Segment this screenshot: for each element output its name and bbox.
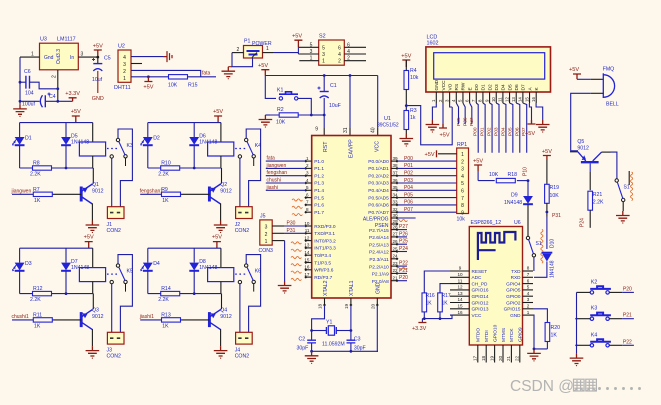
svg-text:D1: D1 (25, 136, 32, 142)
power +5V (474, 165, 482, 171)
connector J5 CON3 (260, 220, 272, 245)
svg-text:10K: 10K (550, 193, 560, 199)
svg-text:2: 2 (123, 69, 126, 75)
svg-text:T1/P3.5: T1/P3.5 (314, 260, 331, 266)
svg-text:INT0/P3.2: INT0/P3.2 (314, 238, 336, 244)
svg-text:3: 3 (306, 171, 309, 176)
mcu right pin stubs P0 (391, 156, 398, 214)
svg-text:P37: P37 (469, 117, 475, 126)
svg-text:3: 3 (265, 225, 268, 231)
svg-text:CON3: CON3 (259, 248, 274, 254)
svg-text:D2: D2 (153, 136, 160, 142)
resistor R18 10K (478, 180, 495, 182)
wire to RXD (534, 262, 547, 278)
svg-text:jiashi1: jiashi1 (139, 314, 154, 320)
capacitor C4 100uf (20, 100, 40, 102)
svg-text:7: 7 (527, 272, 530, 277)
ground (536, 120, 550, 133)
svg-text:P03: P03 (404, 178, 413, 184)
net label chushi1 (12, 319, 33, 321)
svg-text:P1.2: P1.2 (314, 173, 324, 179)
svg-text:R3: R3 (410, 108, 417, 114)
resistor R10 2.2K (148, 167, 222, 169)
wire (220, 248, 222, 267)
lcd LCD1602 (426, 47, 551, 92)
svg-text:10k: 10k (457, 217, 466, 223)
svg-text:EA/VPP: EA/VPP (349, 139, 355, 158)
svg-text:16: 16 (304, 265, 310, 270)
pin ALE (391, 217, 397, 219)
svg-text:ALE/PROG: ALE/PROG (363, 217, 389, 223)
svg-text:P30: P30 (287, 221, 296, 227)
+5V rail J1 (72, 116, 80, 123)
power +5V rail (261, 70, 269, 76)
svg-text:S2: S2 (319, 34, 326, 40)
ground (214, 346, 228, 359)
svg-text:P1.5: P1.5 (314, 195, 324, 201)
svg-text:D4: D4 (501, 84, 507, 90)
svg-text:U1: U1 (384, 116, 391, 122)
svg-text:C6: C6 (24, 69, 31, 75)
wire GND pin 20 (376, 305, 379, 351)
wire (91, 204, 93, 221)
svg-text:P1.0: P1.0 (314, 159, 324, 165)
svg-text:7: 7 (461, 196, 464, 202)
power +5V (402, 60, 410, 67)
svg-text:4: 4 (338, 52, 341, 58)
svg-text:+5V: +5V (212, 235, 222, 241)
wire (147, 145, 149, 168)
svg-text:D9: D9 (511, 193, 518, 199)
svg-text:P02: P02 (404, 171, 413, 177)
svg-text:8: 8 (527, 266, 530, 271)
svg-text:P00: P00 (473, 127, 479, 136)
svg-text:CON2: CON2 (107, 228, 122, 234)
net label fengshan1 (140, 193, 161, 195)
svg-text:P0.2/AD2: P0.2/AD2 (368, 173, 389, 179)
svg-text:RXD/P3.0: RXD/P3.0 (314, 224, 336, 230)
svg-text:30pF: 30pF (354, 346, 366, 352)
wire (517, 180, 528, 182)
svg-text:RXD: RXD (511, 275, 522, 280)
svg-text:GPIO5: GPIO5 (506, 288, 521, 293)
svg-text:P24: P24 (580, 218, 586, 227)
svg-text:P21: P21 (623, 313, 632, 319)
resistor R21 2.2K (588, 191, 593, 210)
svg-text:1K: 1K (426, 301, 433, 307)
svg-text:VCC: VCC (375, 141, 381, 152)
svg-text:P1.7: P1.7 (314, 210, 324, 216)
svg-text:XTAL1: XTAL1 (349, 280, 355, 296)
wire (20, 122, 93, 124)
svg-text:BELL: BELL (606, 102, 619, 108)
mcu bottom pins (324, 298, 326, 305)
wire (65, 248, 67, 262)
svg-text:C5: C5 (104, 56, 111, 62)
wire J5 to P3.1 (272, 232, 284, 234)
wire pin3 stub (131, 63, 142, 65)
resistor R14 2.2K (148, 293, 222, 295)
wire (19, 271, 21, 294)
svg-text:RS: RS (454, 84, 460, 91)
wire (92, 123, 94, 142)
svg-text:ESP8266_12: ESP8266_12 (471, 220, 502, 226)
svg-text:11: 11 (458, 278, 463, 283)
svg-text:R10: R10 (161, 161, 171, 167)
wire pin2 of U3 (57, 70, 59, 101)
svg-text:D3: D3 (494, 84, 500, 90)
svg-text:6: 6 (461, 189, 464, 195)
svg-text:P00: P00 (404, 156, 413, 162)
svg-text:16: 16 (457, 310, 463, 315)
svg-text:VCC: VCC (441, 80, 447, 91)
svg-text:23: 23 (393, 261, 399, 266)
svg-text:jiashi: jiashi (266, 185, 278, 191)
svg-text:P1.4: P1.4 (314, 188, 324, 194)
wire (239, 284, 241, 333)
svg-text:P06: P06 (404, 200, 413, 206)
svg-text:Q2: Q2 (220, 182, 227, 188)
svg-text:100uf: 100uf (22, 102, 36, 108)
antenna logo (478, 232, 516, 260)
svg-text:+5V: +5V (425, 152, 435, 158)
svg-text:Q4: Q4 (220, 308, 227, 314)
svg-text:T0/P3.4: T0/P3.4 (314, 253, 331, 259)
svg-text:P01: P01 (480, 127, 486, 136)
wire (118, 129, 132, 207)
wire ground rail (312, 350, 378, 352)
svg-text:3: 3 (461, 167, 464, 173)
wire (220, 282, 222, 294)
wire (220, 123, 222, 142)
crystal Y1 11.0592M (312, 330, 327, 332)
ground (400, 134, 414, 147)
svg-text:15: 15 (524, 97, 529, 102)
buzzer FMQ BELL (602, 73, 604, 98)
svg-text:R11: R11 (33, 313, 42, 319)
svg-text:11.0592M: 11.0592M (322, 342, 345, 348)
wire lcd pin1 to ground (432, 103, 436, 120)
ground (86, 221, 100, 234)
svg-text:P22: P22 (623, 339, 632, 345)
wire (92, 282, 94, 294)
svg-text:30: 30 (393, 213, 399, 218)
svg-text:C2: C2 (299, 337, 306, 343)
svg-text:37: 37 (393, 171, 399, 176)
svg-text:P2.7/A15: P2.7/A15 (369, 228, 389, 234)
wire (221, 168, 223, 184)
svg-text:8: 8 (461, 203, 464, 209)
svg-text:13: 13 (457, 291, 463, 296)
wire (622, 202, 624, 211)
wire (591, 92, 604, 94)
svg-text:R4: R4 (410, 68, 417, 74)
svg-text:24: 24 (393, 254, 399, 259)
svg-text:P04: P04 (500, 127, 506, 136)
svg-text:RP1: RP1 (457, 142, 467, 148)
svg-text:10K: 10K (276, 120, 286, 126)
svg-text:GPIO15: GPIO15 (504, 307, 521, 312)
svg-text:P06: P06 (514, 127, 520, 136)
dip switch S2 (319, 40, 345, 65)
svg-text:D10: D10 (550, 239, 556, 248)
svg-text:P1.3: P1.3 (314, 181, 324, 187)
svg-text:5: 5 (461, 181, 464, 187)
svg-text:+5V: +5V (401, 54, 411, 60)
resistor R9 1K (181, 193, 210, 195)
svg-text:D6: D6 (514, 84, 520, 90)
svg-text:9: 9 (315, 127, 318, 133)
esp bottom pins (473, 324, 524, 362)
resistor pack RP1 10k (457, 148, 469, 214)
svg-text:+5V: +5V (542, 149, 552, 155)
wires P0 to RP1 (397, 156, 457, 213)
svg-text:+3.3V: +3.3V (412, 326, 427, 332)
svg-text:R15: R15 (188, 83, 198, 89)
svg-text:1K: 1K (551, 333, 558, 339)
svg-text:D1: D1 (481, 84, 487, 90)
svg-text:K1: K1 (277, 88, 283, 94)
svg-text:2.2K: 2.2K (158, 297, 169, 303)
svg-text:P02: P02 (487, 127, 493, 136)
svg-text:MTDO: MTDO (476, 328, 482, 342)
svg-text:U2: U2 (118, 44, 125, 50)
diode D8 1N4148 (189, 263, 199, 271)
resistor R16 1K (422, 293, 427, 312)
svg-text:R21: R21 (593, 192, 603, 198)
svg-text:P01: P01 (404, 163, 413, 169)
wire (147, 271, 149, 294)
svg-text:R16: R16 (426, 293, 435, 299)
net label jiashi1 (140, 319, 161, 321)
wire (78, 56, 98, 58)
wire (193, 271, 195, 294)
svg-text:13: 13 (511, 97, 516, 102)
resistor R12 2.2K (20, 293, 94, 295)
svg-text:40: 40 (371, 127, 377, 133)
svg-text:VCC: VCC (472, 313, 483, 318)
svg-text:2.2K: 2.2K (158, 172, 169, 178)
svg-text:14: 14 (304, 250, 310, 255)
resistor R15 10K (169, 75, 188, 79)
wire (20, 56, 40, 58)
wire (298, 98, 311, 115)
svg-text:P20: P20 (623, 286, 632, 292)
connector J2 CON2 (236, 207, 253, 219)
svg-text:14: 14 (518, 97, 523, 102)
svg-text:1: 1 (265, 239, 268, 245)
svg-text:12: 12 (504, 97, 509, 102)
capacitor C2 30pF (307, 340, 316, 343)
wire J5 to P3.0 (272, 225, 284, 227)
svg-text:19: 19 (344, 303, 349, 309)
svg-text:CH_PD: CH_PD (472, 281, 489, 286)
wire J5 pin1 to ground (272, 240, 284, 242)
wire (220, 156, 222, 168)
wire VCC pin 40 (377, 76, 379, 129)
svg-text:U3: U3 (40, 37, 47, 43)
wire (19, 248, 21, 262)
svg-text:RST: RST (323, 141, 329, 152)
wire (118, 255, 132, 333)
svg-text:2: 2 (461, 159, 464, 165)
wire lcd pin16 to ground (536, 103, 543, 120)
svg-text:20: 20 (498, 355, 503, 361)
svg-text:P2.3/A11: P2.3/A11 (369, 257, 389, 263)
svg-text:11: 11 (498, 97, 503, 102)
net label jiangwen (12, 193, 33, 195)
wire (92, 248, 94, 267)
svg-text:CSDN @: CSDN @ (510, 378, 574, 395)
wire collector (589, 163, 591, 171)
svg-text:10K: 10K (168, 83, 178, 89)
svg-text:CON2: CON2 (107, 354, 122, 360)
svg-text:Gnd: Gnd (44, 55, 54, 61)
wire (19, 145, 21, 168)
svg-text:P0.0/AD0: P0.0/AD0 (368, 159, 389, 165)
svg-text:+5V: +5V (143, 85, 153, 91)
svg-text:2: 2 (527, 304, 530, 309)
svg-text:2: 2 (265, 232, 268, 238)
connector U2 DHT11 (118, 50, 131, 82)
svg-text:D5: D5 (507, 84, 513, 90)
switch S3 (615, 179, 618, 182)
svg-text:GPIO13: GPIO13 (472, 307, 489, 312)
svg-text:POWER: POWER (252, 41, 272, 47)
svg-text:4: 4 (461, 174, 464, 180)
svg-text:10: 10 (457, 272, 463, 277)
svg-text:89C51/52: 89C51/52 (377, 123, 399, 129)
svg-text:+5V: +5V (525, 131, 535, 137)
svg-text:MTDI: MTDI (484, 330, 490, 342)
svg-text:C1: C1 (330, 83, 337, 89)
svg-text:+5V: +5V (440, 133, 450, 139)
svg-text:chushi: chushi (267, 178, 281, 184)
svg-text:17: 17 (304, 272, 310, 277)
transistor Q1 9012 (81, 184, 92, 204)
wire (92, 294, 94, 310)
wire (193, 248, 195, 262)
resistor R11 1K (53, 319, 82, 321)
wire lcd pin15 backlight +5V (529, 103, 531, 124)
wire (65, 123, 67, 137)
svg-text:CON2: CON2 (235, 354, 250, 360)
svg-text:+5V: +5V (213, 109, 223, 115)
wire (147, 123, 149, 137)
svg-text:38: 38 (393, 163, 399, 168)
svg-text:P31: P31 (552, 213, 561, 219)
svg-text:R12: R12 (33, 286, 43, 292)
+5V rail J2 (214, 116, 222, 123)
svg-text:P26: P26 (399, 231, 408, 237)
svg-text:R7: R7 (33, 187, 40, 193)
relay K6 (208, 264, 262, 292)
svg-text:+5V: +5V (292, 34, 302, 40)
svg-text:13: 13 (304, 243, 310, 248)
svg-text:chushi1: chushi1 (12, 314, 29, 320)
svg-text:D4: D4 (153, 261, 160, 267)
svg-text:P2.4/A12: P2.4/A12 (369, 250, 389, 256)
svg-text:1: 1 (306, 156, 309, 161)
wire lcd pin2 +5V (442, 103, 444, 128)
svg-text:CON2: CON2 (235, 228, 250, 234)
svg-text:P0.7/AD7: P0.7/AD7 (368, 210, 389, 216)
LED D2 (140, 137, 153, 146)
svg-text:fata: fata (267, 156, 276, 162)
svg-text:E: E (467, 87, 473, 90)
wire (405, 130, 407, 135)
svg-text:2: 2 (306, 163, 309, 168)
ground sideways (163, 51, 172, 62)
wire (65, 145, 67, 168)
svg-text:9: 9 (461, 210, 464, 216)
svg-text:4: 4 (527, 291, 530, 296)
svg-text:9012: 9012 (92, 314, 104, 320)
wire (311, 114, 324, 116)
connector P1 POWER (244, 46, 263, 59)
wire rail (265, 75, 377, 77)
diode D7 1N4148 (61, 263, 71, 271)
svg-text:5: 5 (322, 45, 325, 51)
svg-text:jiangwen: jiangwen (11, 189, 32, 195)
svg-text:+5V: +5V (258, 63, 268, 69)
svg-text:P1.1: P1.1 (314, 166, 324, 172)
wire (65, 271, 67, 294)
svg-text:P0.5/AD5: P0.5/AD5 (368, 195, 389, 201)
power +5V (543, 156, 551, 161)
svg-text:GPIO12: GPIO12 (472, 300, 489, 305)
wire (147, 248, 149, 262)
wire (193, 123, 195, 137)
svg-text:R20: R20 (551, 325, 561, 331)
svg-text:Out3.3: Out3.3 (56, 49, 62, 64)
wire button rail (576, 292, 578, 353)
power +5V (94, 50, 102, 57)
svg-text:P2.2/A10: P2.2/A10 (369, 264, 389, 270)
svg-text:12: 12 (457, 285, 463, 290)
svg-text:9012: 9012 (220, 314, 232, 320)
svg-text:1: 1 (266, 46, 269, 52)
svg-text:jiangwen: jiangwen (266, 163, 287, 169)
svg-text:16: 16 (531, 97, 536, 102)
svg-text:39: 39 (393, 156, 399, 161)
wire (20, 247, 93, 249)
LED D4 (140, 263, 153, 272)
wire to TXD (533, 257, 535, 271)
capacitor C1 10uF (323, 76, 325, 92)
ground (570, 354, 584, 367)
transistor Q3 9012 (81, 310, 92, 330)
wire (265, 76, 276, 99)
power +5V (294, 40, 302, 47)
wire RP1 pin1 +5V (438, 153, 457, 155)
svg-text:ADC: ADC (472, 275, 483, 280)
svg-text:2.2K: 2.2K (593, 200, 604, 206)
wire (92, 168, 94, 184)
svg-text:GPIO0: GPIO0 (506, 294, 521, 299)
diode D10 1N4148 (542, 252, 553, 254)
svg-text:D2: D2 (487, 84, 493, 90)
svg-text:R18: R18 (508, 172, 518, 178)
svg-text:104: 104 (25, 91, 34, 97)
wire (589, 210, 591, 228)
svg-text:22: 22 (515, 355, 520, 361)
wire (148, 122, 221, 124)
wire (221, 294, 223, 310)
svg-text:GND: GND (510, 313, 521, 318)
relay K4 (208, 138, 262, 166)
wire (193, 145, 195, 168)
